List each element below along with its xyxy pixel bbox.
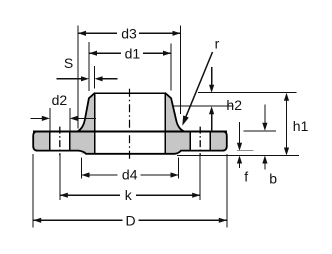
svg-text:b: b xyxy=(269,170,277,186)
bore right line xyxy=(164,93,166,154)
ext line S bore xyxy=(94,66,96,89)
dimension k xyxy=(60,194,120,196)
svg-text:S: S xyxy=(64,55,73,71)
svg-text:d4: d4 xyxy=(122,167,138,183)
raised face left xyxy=(79,151,95,154)
ext line rim right xyxy=(198,92,297,94)
svg-text:d2: d2 xyxy=(52,92,68,108)
bolt hole right edges xyxy=(189,131,191,150)
ext line k right xyxy=(199,153,201,200)
dimension d3 xyxy=(78,32,117,34)
ext line d4 left xyxy=(81,158,83,179)
label r leader arrow xyxy=(185,52,213,119)
svg-text:d3: d3 xyxy=(121,26,137,42)
ext line d4 right xyxy=(178,158,180,179)
dimension S xyxy=(57,78,82,80)
svg-text:f: f xyxy=(244,169,248,185)
ext line d2 right xyxy=(69,108,71,131)
dimension d2 xyxy=(31,117,43,119)
dimension h1 xyxy=(286,99,288,149)
svg-text:k: k xyxy=(125,187,133,203)
svg-text:h2: h2 xyxy=(226,97,242,113)
bore left line xyxy=(94,93,96,154)
ext line D right xyxy=(226,154,228,228)
dimension d1 xyxy=(89,52,121,54)
main centerline axis xyxy=(129,89,131,160)
hub right outline xyxy=(165,93,184,131)
dimension d4 xyxy=(82,174,118,176)
ext line D left xyxy=(32,154,34,228)
svg-text:D: D xyxy=(125,213,135,229)
dimension b xyxy=(264,105,266,123)
dimension D xyxy=(33,219,122,221)
plate right rounded cap xyxy=(222,131,227,150)
right bolt centerline xyxy=(199,127,201,156)
ext line taper end xyxy=(173,105,234,107)
flange hub right wall xyxy=(165,93,184,131)
raised face right xyxy=(165,151,178,154)
bolt hole left edges xyxy=(49,131,51,150)
ext line plate bottom right gray xyxy=(237,150,253,152)
svg-text:r: r xyxy=(215,36,220,52)
hub left outline xyxy=(78,93,95,131)
dimension h2 xyxy=(211,67,213,85)
svg-text:d1: d1 xyxy=(125,46,141,62)
ext line d1 right xyxy=(170,44,172,91)
flange hub left wall xyxy=(78,93,95,131)
ext line d3 left xyxy=(77,26,79,129)
plate top line xyxy=(33,130,227,132)
dimension f xyxy=(239,122,241,143)
ext line plate top right xyxy=(244,130,276,132)
ext line k left xyxy=(59,153,61,200)
ext line d3 right xyxy=(180,26,182,115)
plate bottom and raised face bottom xyxy=(36,151,224,154)
ext line face bottom right xyxy=(177,155,299,157)
hub top rim line xyxy=(95,92,166,94)
flange plate segments xyxy=(33,131,50,150)
left bolt centerline xyxy=(59,127,61,156)
plate left rounded cap xyxy=(33,131,38,150)
ext line d2 left xyxy=(49,108,51,131)
ext line d1 left xyxy=(88,42,90,91)
svg-text:h1: h1 xyxy=(293,118,309,134)
